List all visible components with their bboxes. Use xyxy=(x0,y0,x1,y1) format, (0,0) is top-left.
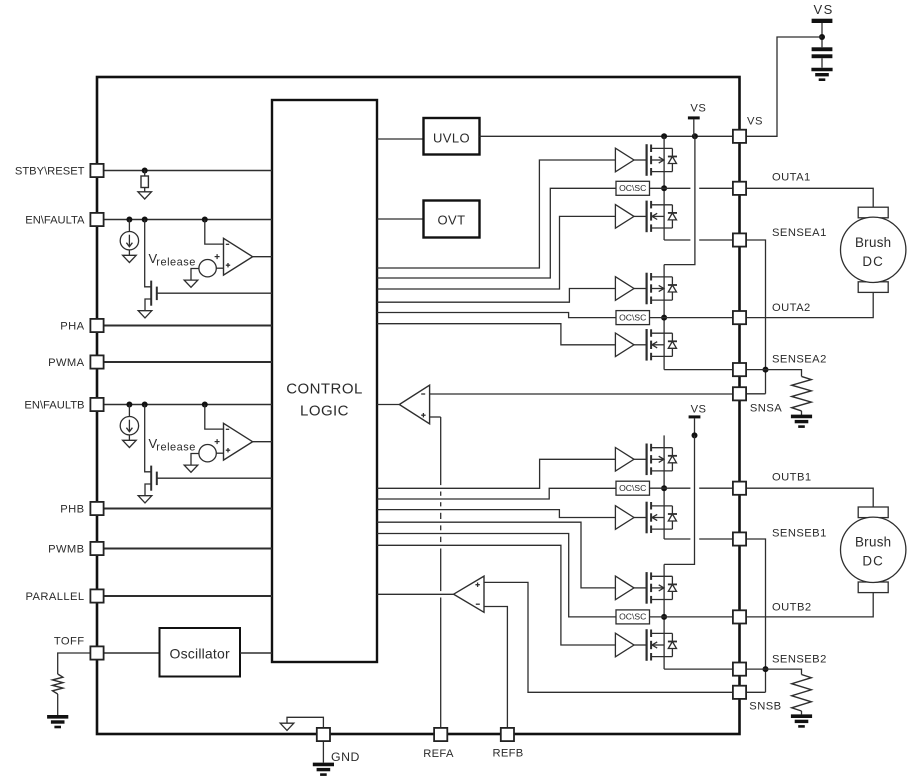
wire VS-B feeder to half-bridge B2 drain xyxy=(664,435,694,564)
svg-text:REFB: REFB xyxy=(492,747,523,759)
op-amp current comparator B xyxy=(454,576,484,612)
supply rail bar VS xyxy=(812,19,833,23)
voltage source Vrelease A xyxy=(199,254,220,277)
wire TOFF pin to Oscillator xyxy=(104,652,160,654)
wire tap to current source B xyxy=(128,405,130,417)
resistor R-SNSB sense xyxy=(792,675,812,712)
rail bar VS internal A xyxy=(688,116,700,119)
wire tap to transistor MA drain xyxy=(145,220,152,287)
node EN\FAULTA tap 1 xyxy=(126,217,132,223)
svg-text:PARALLEL: PARALLEL xyxy=(26,591,85,603)
motor B Brush DC xyxy=(841,507,906,593)
wire UVLO to VS rail and VS pin xyxy=(480,135,734,137)
wire SNSB pin stub xyxy=(746,691,765,693)
wire STBY tap to pulldown resistor xyxy=(144,171,146,177)
svg-text:OC\SC: OC\SC xyxy=(619,183,646,193)
ground power below sense resistor A xyxy=(791,415,812,419)
pin PHB xyxy=(90,502,103,515)
body diode of Q-B1H xyxy=(668,448,677,471)
pin VS xyxy=(733,130,746,143)
pin OUTB2 xyxy=(733,610,746,623)
gate driver buffer A1 low-side xyxy=(615,205,634,229)
block UVLO xyxy=(424,118,480,155)
node OUTA2 switching node xyxy=(661,315,667,321)
ground power below TOFF resistor xyxy=(47,715,68,719)
wire GND pin to ground xyxy=(322,741,324,763)
svg-text:GND: GND xyxy=(331,750,360,764)
wire Vrelease A to ground xyxy=(191,269,199,281)
motor A Brush DC xyxy=(841,207,906,292)
wire VS bar A to rail xyxy=(693,119,695,136)
wire PHA to CONTROL LOGIC xyxy=(104,325,272,327)
node EN\FAULTB tap 1 xyxy=(126,402,132,408)
wire Vrelease B to comparator non-inverting input xyxy=(216,452,223,454)
svg-text:EN\FAULTB: EN\FAULTB xyxy=(24,400,84,412)
wire comparator B output to CONTROL LOGIC xyxy=(253,441,272,443)
svg-text:Oscillator: Oscillator xyxy=(170,645,230,661)
svg-text:DC: DC xyxy=(862,254,884,269)
wire PWMA to CONTROL LOGIC xyxy=(104,361,272,363)
wire tap to transistor MB drain xyxy=(145,405,152,472)
pin OUTB1 xyxy=(733,482,746,495)
svg-text:DC: DC xyxy=(862,554,884,569)
wire tap to comparator B inverting input xyxy=(205,405,224,430)
pin OUTA1 xyxy=(733,182,746,195)
wire half-bridge A1 bus xyxy=(663,136,665,240)
wire B1 low source to SENSEB1 pin xyxy=(664,538,690,540)
wire SENSEA1 pin to SNSA tie bus xyxy=(746,240,765,394)
wire CONTROL LOGIC to A1 high-side driver xyxy=(377,160,615,268)
wire B2 low source to SENSEB2 pin xyxy=(664,668,733,670)
wire capacitor to ground xyxy=(821,58,823,67)
svg-text:OUTA1: OUTA1 xyxy=(772,172,811,184)
wire CONTROL LOGIC to A2 low-side driver xyxy=(377,324,615,345)
block OC\SC B1 over-current detector xyxy=(616,481,650,495)
transistor Q-A2H power NMOS xyxy=(634,273,672,305)
svg-text:OC\SC: OC\SC xyxy=(619,312,646,322)
svg-text:UVLO: UVLO xyxy=(433,130,470,145)
wire CONTROL LOGIC to B1 high-side driver xyxy=(377,459,615,488)
svg-text:VS: VS xyxy=(690,103,706,115)
ground signal below STBY resistor xyxy=(138,192,152,199)
svg-text:OC\SC: OC\SC xyxy=(619,612,646,622)
ground signal below Vrelease A xyxy=(184,280,198,287)
block CONTROL LOGIC xyxy=(272,100,377,662)
wire CONTROL LOGIC to OC\SC B2 xyxy=(377,534,616,617)
svg-text:OC\SC: OC\SC xyxy=(619,483,646,493)
wire VS bar B to B1 drain junction xyxy=(694,418,696,435)
transistor Q-B2H power NMOS xyxy=(634,572,672,604)
wire comparator A output to CONTROL LOGIC xyxy=(253,256,272,258)
node OUTA1 switching node xyxy=(661,185,667,191)
op-amp current comparator A xyxy=(399,385,429,424)
wire CONTROL LOGIC to UVLO xyxy=(377,138,424,140)
node EN\FAULTA tap 3 xyxy=(202,217,208,223)
node EN\FAULTA tap 2 xyxy=(142,217,148,223)
resistor STBY pulldown xyxy=(141,176,148,188)
node VS rail junction at half-bridge A1 xyxy=(661,133,667,139)
transistor Q-B2L power NMOS xyxy=(634,629,672,661)
pin SNSA xyxy=(733,387,746,400)
wire OUTB1 pin to motor B top xyxy=(746,488,873,507)
wire OUTB2 pin to motor B bottom xyxy=(746,593,873,617)
ground signal below transistor MB xyxy=(138,496,152,503)
svg-text:SENSEB1: SENSEB1 xyxy=(772,528,827,540)
wire EN\FAULTB to CONTROL LOGIC xyxy=(104,404,272,406)
label Vrelease B xyxy=(149,436,196,454)
svg-text:release: release xyxy=(156,257,196,269)
capacitor C-VS bulk xyxy=(812,47,833,58)
wire Vrelease A to comparator non-inverting input xyxy=(216,267,223,269)
pin SENSEA2 xyxy=(733,363,746,376)
node VS rail junction at VS-A feeder xyxy=(692,133,698,139)
svg-text:TOFF: TOFF xyxy=(54,635,85,647)
transistor Q-B1H power NMOS xyxy=(634,444,672,476)
label Vrelease A xyxy=(149,251,196,269)
pin REFB xyxy=(501,728,514,741)
svg-text:SENSEB2: SENSEB2 xyxy=(772,653,827,665)
gate driver buffer A1 high-side xyxy=(615,148,634,172)
wire TOFF pin to timing resistor xyxy=(58,653,91,674)
node OUTB1 switching node xyxy=(661,485,667,491)
body diode of Q-A2H xyxy=(668,277,677,300)
svg-text:OVT: OVT xyxy=(438,213,466,228)
node STBY pulldown tap xyxy=(142,168,148,174)
resistor R-TOFF timing xyxy=(53,674,63,694)
wire A2 low source to SENSEA2 pin xyxy=(664,369,733,371)
wire comparator A output to CONTROL LOGIC xyxy=(377,404,399,406)
node OUTB2 switching node xyxy=(661,614,667,620)
body diode of Q-B2L xyxy=(668,633,677,656)
resistor R-SNSA sense xyxy=(792,376,812,411)
svg-text:CONTROL: CONTROL xyxy=(286,381,363,398)
ground signal below Vrelease B xyxy=(184,465,198,472)
wire A1 low source to SENSEA1 pin xyxy=(664,239,690,241)
block OC\SC A1 over-current detector xyxy=(616,181,650,195)
block OVT xyxy=(424,201,480,238)
pin PWMB xyxy=(90,542,103,555)
wire OUTA2 pin to motor A bottom xyxy=(746,292,873,317)
svg-text:Brush: Brush xyxy=(855,534,891,549)
svg-text:SNSA: SNSA xyxy=(750,402,782,414)
wire VS-A feeder to half-bridge A2 drain xyxy=(664,136,695,264)
wire CONTROL LOGIC to B1 low-side driver xyxy=(377,510,615,518)
current source IB xyxy=(120,417,138,435)
svg-text:STBY\RESET: STBY\RESET xyxy=(15,166,85,178)
wire EN\FAULTA to CONTROL LOGIC xyxy=(104,219,272,221)
voltage source Vrelease B xyxy=(199,439,220,462)
svg-text:OUTB1: OUTB1 xyxy=(772,472,812,484)
svg-text:OUTB2: OUTB2 xyxy=(772,601,812,613)
wire current source B to ground xyxy=(128,435,130,440)
wire PHB to CONTROL LOGIC xyxy=(104,508,272,510)
block Oscillator xyxy=(160,628,241,677)
svg-text:SNSB: SNSB xyxy=(749,700,781,712)
wire SNSA pin stub xyxy=(746,393,765,395)
svg-text:PWMA: PWMA xyxy=(48,357,85,369)
wire tap to current source A xyxy=(128,220,130,232)
transistor Q-A1L power NMOS xyxy=(634,201,672,233)
wire comparator B output to CONTROL LOGIC xyxy=(377,593,454,595)
wire STBY\RESET to CONTROL LOGIC xyxy=(104,170,272,172)
transistor MA fault-pulldown NMOS xyxy=(145,281,157,311)
pin PWMA xyxy=(90,355,103,368)
svg-text:PHB: PHB xyxy=(60,504,84,516)
wire CONTROL LOGIC to OC\SC A2 xyxy=(377,313,616,318)
pin GND xyxy=(317,728,330,741)
pin SNSB xyxy=(733,686,746,699)
pin SENSEB1 xyxy=(733,532,746,545)
ground power below GND pin xyxy=(313,763,334,767)
node EN\FAULTB tap 2 xyxy=(142,402,148,408)
svg-text:REFA: REFA xyxy=(423,748,454,760)
wire PARALLEL to CONTROL LOGIC xyxy=(104,595,272,597)
wire Oscillator to CONTROL LOGIC xyxy=(240,652,272,654)
wire SENSEB2 to sense resistor B xyxy=(746,669,801,674)
pin SENSEB2 xyxy=(733,663,746,676)
wire CONTROL LOGIC to B2 high-side driver xyxy=(377,522,615,588)
wire STBY resistor to ground xyxy=(144,188,146,192)
svg-text:OUTA2: OUTA2 xyxy=(772,302,811,314)
svg-text:Brush: Brush xyxy=(855,235,891,250)
gate driver buffer B1 high-side xyxy=(615,448,634,472)
transistor Q-A2L power NMOS xyxy=(634,329,672,361)
wire OUTA1 pin to motor A top xyxy=(746,188,873,207)
pin STBY\RESET xyxy=(90,164,103,177)
wire comparator A non-inverting input to REFA pin xyxy=(430,416,441,418)
wire half-bridge B2 bus xyxy=(663,564,665,669)
wire GND pin to substrate arrow xyxy=(287,717,323,728)
wire OC\SC A1 to OUTA1 pin xyxy=(650,187,691,189)
body diode of Q-A2L xyxy=(668,333,677,356)
gate driver buffer B2 low-side xyxy=(615,633,634,657)
wire OC\SC A2 to OUTA2 pin xyxy=(650,317,734,319)
transistor MB fault-pulldown NMOS xyxy=(145,466,157,496)
ground power below sense resistor B xyxy=(791,714,812,718)
wire OC\SC B2 to OUTB2 pin xyxy=(650,616,734,618)
wire resistor B to ground xyxy=(801,711,803,714)
node EN\FAULTB tap 3 xyxy=(202,402,208,408)
op-amp release comparator B xyxy=(224,423,253,460)
gate driver buffer B1 low-side xyxy=(615,506,634,530)
wire Vrelease B to ground xyxy=(191,454,199,466)
pin EN\FAULTA xyxy=(90,213,103,226)
gate driver buffer B2 high-side xyxy=(615,576,634,600)
ground signal substrate arrow xyxy=(280,723,294,730)
ground power below VS capacitor xyxy=(811,68,832,72)
pin REFA xyxy=(434,728,447,741)
pin TOFF xyxy=(90,646,103,659)
node VS-B junction at half-bridge B1 drain xyxy=(692,432,698,438)
svg-text:PWMB: PWMB xyxy=(48,544,84,556)
wire comparator B inverting input to REFB pin xyxy=(484,607,507,728)
wire transistor MA gate to CONTROL LOGIC xyxy=(157,292,272,294)
svg-text:EN\FAULTA: EN\FAULTA xyxy=(25,215,85,227)
node VS external junction xyxy=(819,34,825,40)
wire OC\SC B1 to OUTB1 pin xyxy=(650,487,691,489)
op-amp release comparator A xyxy=(224,238,253,275)
body diode of Q-B1L xyxy=(668,506,677,529)
transistor Q-B1L power NMOS xyxy=(634,502,672,534)
wire PWMB to CONTROL LOGIC xyxy=(104,548,272,550)
ground signal below current source B xyxy=(123,440,137,447)
wire CONTROL LOGIC to OC\SC A1 xyxy=(377,188,616,278)
body diode of Q-A1L xyxy=(668,205,677,228)
transistor Q-A1H power NMOS xyxy=(634,144,672,176)
pin OUTA2 xyxy=(733,311,746,324)
block OC\SC A2 over-current detector xyxy=(616,311,650,325)
wire resistor A to ground xyxy=(801,411,803,415)
chip outline (device boundary) xyxy=(97,77,740,734)
svg-text:SENSEA2: SENSEA2 xyxy=(772,354,827,366)
pin SENSEA1 xyxy=(733,233,746,246)
svg-text:VS: VS xyxy=(814,2,834,17)
wire CONTROL LOGIC to OC\SC B1 xyxy=(377,488,616,499)
wire half-bridge A2 bus xyxy=(663,265,665,370)
wire current source A to ground xyxy=(128,250,130,255)
svg-text:SENSEA1: SENSEA1 xyxy=(772,227,827,239)
block OC\SC B2 over-current detector xyxy=(616,610,650,624)
wire VS junction to VS pin xyxy=(746,37,822,136)
svg-text:release: release xyxy=(156,442,196,454)
wire comparator A inverting input to SNSA pin xyxy=(430,393,734,395)
wire resistor TOFF to ground xyxy=(57,694,59,715)
gate driver buffer A2 high-side xyxy=(615,277,634,301)
svg-text:LOGIC: LOGIC xyxy=(300,403,349,420)
wire SENSEB1 pin to SNSB tie bus xyxy=(746,539,765,692)
wire CONTROL LOGIC to A1 low-side driver xyxy=(377,216,615,289)
pin PARALLEL xyxy=(90,589,103,602)
rail bar VS internal B xyxy=(689,415,701,418)
wire half-bridge B1 bus xyxy=(663,435,665,539)
body diode of Q-B2H xyxy=(668,576,677,599)
svg-text:VS: VS xyxy=(747,116,763,128)
ground signal below current source A xyxy=(123,255,137,262)
wire CONTROL LOGIC to B2 low-side driver xyxy=(377,545,615,645)
pin EN\FAULTB xyxy=(90,398,103,411)
node SENSEB2 junction xyxy=(763,666,769,672)
pin PHA xyxy=(90,319,103,332)
wire SENSEA2 to sense resistor A xyxy=(746,370,801,377)
wire comparator B non-inverting input to SNSB pin xyxy=(484,582,734,692)
wire VS bar to capacitor xyxy=(821,23,823,47)
node SENSEA2 junction xyxy=(763,367,769,373)
wire transistor MB gate to CONTROL LOGIC xyxy=(157,477,272,479)
current source IA xyxy=(120,232,138,250)
wire CONTROL LOGIC to OVT xyxy=(377,218,424,220)
wire CONTROL LOGIC to A2 high-side driver xyxy=(377,289,615,303)
wire tap to comparator A inverting input xyxy=(205,220,224,245)
svg-text:PHA: PHA xyxy=(60,321,84,333)
ground signal below transistor MA xyxy=(138,311,152,318)
svg-text:VS: VS xyxy=(691,403,707,415)
body diode of Q-A1H xyxy=(668,148,677,171)
gate driver buffer A2 low-side xyxy=(615,333,634,357)
